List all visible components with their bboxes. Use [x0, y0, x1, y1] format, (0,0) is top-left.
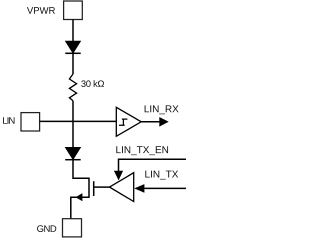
net label LIN_TX_EN	[116, 146, 168, 155]
diode D2 cathode bar	[65, 159, 81, 161]
wire VPWR to diode D1	[72, 20, 74, 42]
port LIN terminal box	[21, 113, 40, 131]
diode D1 cathode bar	[65, 52, 80, 54]
resistor R1 zigzag	[69, 74, 76, 101]
hysteresis symbol inside U1	[119, 119, 127, 126]
arrowhead Q1 source	[76, 193, 83, 201]
resistor R1 value label 30 kOhm	[81, 80, 104, 87]
arrowhead LIN_TX into U2	[134, 184, 144, 193]
port VPWR terminal box	[64, 1, 83, 20]
op-amp U1 Schmitt-trigger receiver buffer	[116, 107, 141, 136]
wire resistor R1 to diode D2 crossing LIN net	[72, 101, 74, 148]
net label LIN_TX	[145, 171, 178, 180]
wire U1 output	[141, 121, 160, 123]
net label LIN_RX	[145, 105, 179, 114]
wire diode D2 to transistor Q1 drain	[73, 160, 89, 179]
wire diode D1 to resistor R1	[72, 53, 74, 74]
wire LIN_TX_EN enable net	[119, 159, 187, 171]
port LIN label	[3, 117, 14, 124]
wire Q1 source with arrow to GND	[71, 197, 89, 219]
port VPWR label	[27, 7, 55, 14]
transistor Q1 gate line	[93, 181, 95, 196]
wire LIN_TX input net	[144, 187, 186, 189]
wire Q1 gate to inverter U2 output	[94, 186, 110, 188]
arrowhead LIN_TX_EN into U2	[114, 171, 123, 181]
port GND terminal box	[63, 219, 82, 237]
arrowhead LIN_RX output	[159, 117, 168, 127]
transistor Q1 channel line	[88, 178, 90, 198]
op-amp U2 transmit driver triangle	[110, 173, 134, 202]
wire LIN to Schmitt buffer input	[40, 120, 117, 122]
diode D1 anode triangle	[65, 41, 80, 53]
port GND label	[37, 225, 56, 232]
diode D2 anode triangle	[65, 147, 81, 159]
